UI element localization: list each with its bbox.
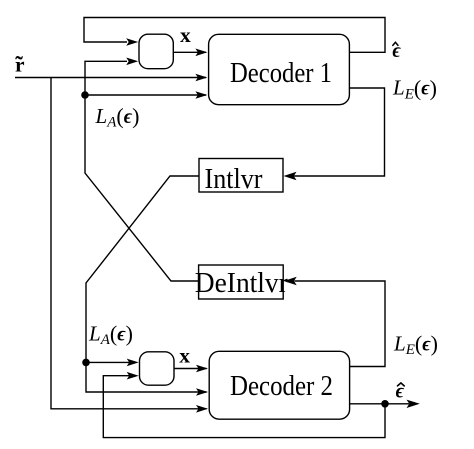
block: mapper box1 top: [139, 34, 173, 68]
wire: epsilon-hat bottom feedback loop: [103, 376, 385, 438]
block: Decoder 1: [209, 34, 350, 104]
svg-text:Decoder 1: Decoder 1: [230, 57, 332, 89]
arrowhead: loop into box1: [126, 38, 138, 46]
wire: LA branch right into box2: [86, 361, 130, 363]
wire: box1 output x to Decoder 1: [173, 51, 206, 53]
arrowhead: LE into DeIntlvr: [284, 277, 297, 285]
svg-text:Intlvr: Intlvr: [205, 163, 263, 195]
svg-text:DeIntlvr: DeIntlvr: [195, 267, 288, 299]
block: Decoder 2: [209, 351, 349, 419]
svg-text:x: x: [180, 23, 191, 47]
block: mapper box2 bottom: [140, 352, 175, 385]
svg-text:LE(ϵ): LE(ϵ): [393, 331, 438, 358]
block: Intlvr: [199, 159, 283, 193]
svg-text:LA(ϵ): LA(ϵ): [95, 104, 140, 131]
arrowhead: LA into box1: [126, 58, 138, 66]
wire: epsilon-hat top feedback loop: [84, 18, 385, 53]
wire: r-tilde input line to Decoder 1: [15, 77, 206, 79]
wire: LA branch right into Decoder 1: [85, 94, 206, 96]
svg-text:Decoder 2: Decoder 2: [230, 370, 333, 402]
arrowhead: LA into Decoder 1: [195, 91, 207, 99]
svg-text:x: x: [179, 344, 190, 368]
wire: box2 output x to Decoder 2: [174, 368, 207, 370]
svg-text:˜: ˜: [15, 52, 23, 77]
arrowhead: LA into box2: [127, 359, 139, 367]
arrowhead: x into Decoder 2: [196, 365, 208, 373]
svg-text:LA(ϵ): LA(ϵ): [88, 321, 133, 348]
node: junction dot on LA line top: [81, 91, 89, 99]
arrowhead: x into Decoder 1: [195, 49, 207, 57]
arrowhead: epsilon-hat output arrow: [407, 400, 420, 408]
node: junction dot on LA line bottom: [82, 359, 90, 367]
wire: Decoder 2 epsilon-hat output line: [350, 403, 409, 405]
svg-text:LE(ϵ): LE(ϵ): [392, 75, 437, 102]
arrowhead: r-tilde into Decoder 2: [196, 405, 208, 413]
wire: r-tilde branch down to Decoder 2: [51, 78, 207, 409]
wire: Decoder 1 LE output down to Intlvr: [294, 88, 385, 176]
wire: Intlvr output down-left to Decoder 2 LA path: [86, 176, 207, 392]
wire: DeIntlvr output up-left to Decoder 1 LA path: [85, 61, 199, 281]
arrowhead: LA into Decoder 2: [196, 388, 208, 396]
arrowhead: LE into Intlvr: [284, 172, 297, 180]
arrowhead: r-tilde into Decoder 1: [195, 74, 207, 82]
arrowhead: loop into box2: [127, 372, 139, 380]
wire: Decoder 2 LE output up to DeIntlvr: [295, 281, 386, 367]
node: junction dot on epsilon-hat output: [381, 400, 389, 408]
block: DeIntlvr: [199, 265, 284, 299]
